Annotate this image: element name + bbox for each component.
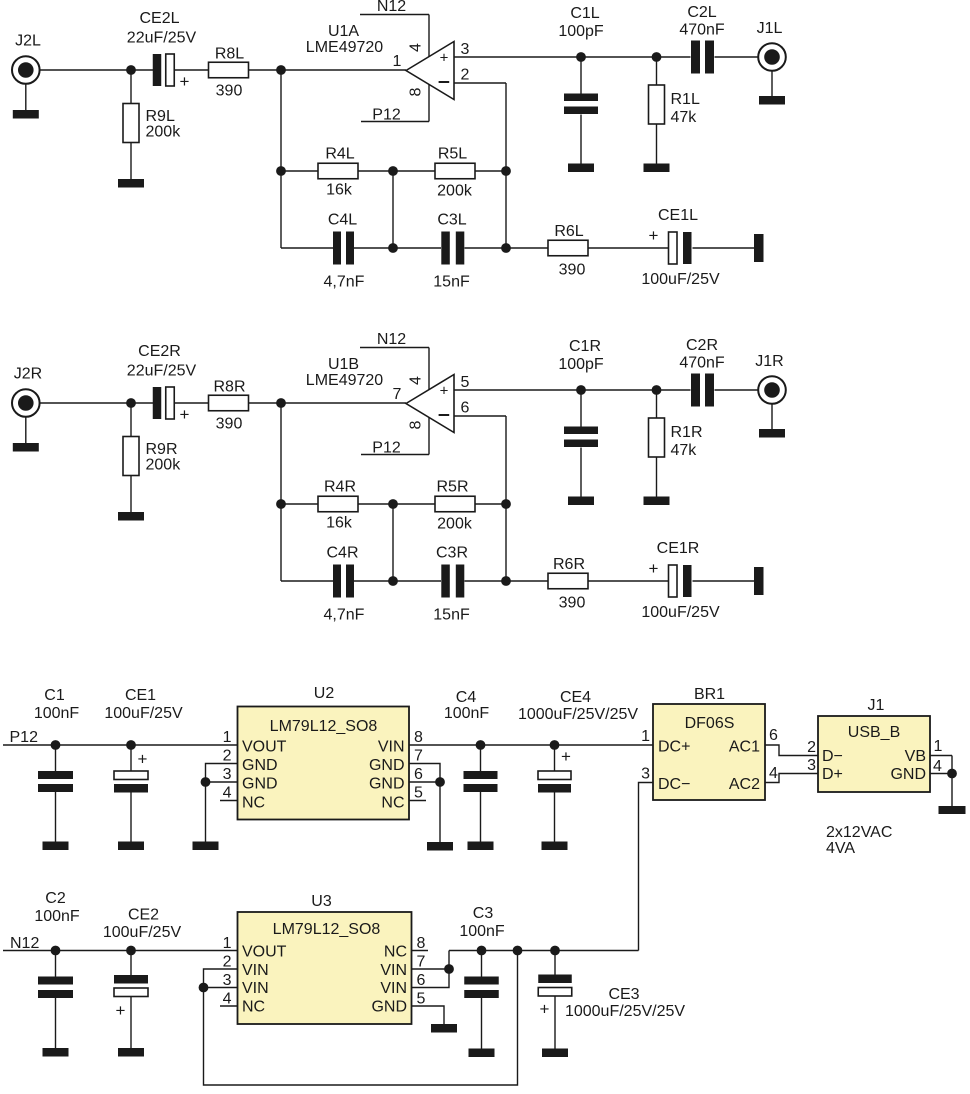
- svg-text:LM79L12_SO8: LM79L12_SO8: [270, 718, 378, 735]
- svg-text:C4L: C4L: [328, 212, 357, 229]
- svg-text:VIN: VIN: [380, 980, 407, 997]
- svg-text:C3R: C3R: [436, 545, 468, 562]
- svg-text:100nF: 100nF: [34, 908, 80, 925]
- svg-text:3: 3: [461, 41, 470, 58]
- svg-text:R5R: R5R: [436, 479, 468, 496]
- svg-text:AC2: AC2: [729, 776, 760, 793]
- svg-text:N12: N12: [377, 331, 406, 348]
- svg-text:D−: D−: [822, 748, 843, 765]
- svg-text:CE1: CE1: [125, 687, 156, 704]
- svg-text:16k: 16k: [326, 515, 353, 532]
- svg-text:+: +: [440, 50, 449, 67]
- svg-text:470nF: 470nF: [679, 22, 725, 39]
- svg-text:4: 4: [223, 785, 232, 802]
- svg-text:LME49720: LME49720: [306, 372, 383, 389]
- svg-text:100nF: 100nF: [34, 705, 80, 722]
- svg-text:CE1L: CE1L: [658, 207, 698, 224]
- svg-text:5: 5: [417, 991, 426, 1008]
- svg-text:100nF: 100nF: [444, 705, 490, 722]
- svg-text:4,7nF: 4,7nF: [324, 274, 365, 291]
- svg-text:CE3: CE3: [608, 986, 639, 1003]
- svg-text:1: 1: [223, 729, 232, 746]
- svg-text:NC: NC: [381, 795, 404, 812]
- svg-text:R4L: R4L: [325, 146, 354, 163]
- svg-text:J1: J1: [868, 697, 885, 714]
- svg-text:J1L: J1L: [757, 20, 783, 37]
- svg-text:5: 5: [461, 374, 470, 391]
- svg-text:R6R: R6R: [553, 556, 585, 573]
- svg-text:USB_B: USB_B: [848, 724, 900, 741]
- svg-text:7: 7: [414, 748, 423, 765]
- svg-text:DC+: DC+: [658, 739, 690, 756]
- svg-text:LM79L12_SO8: LM79L12_SO8: [273, 921, 381, 938]
- svg-text:+: +: [540, 1000, 550, 1019]
- svg-text:200k: 200k: [437, 516, 473, 533]
- svg-text:2: 2: [461, 67, 470, 84]
- svg-text:6: 6: [461, 400, 470, 417]
- svg-text:BR1: BR1: [694, 686, 725, 703]
- svg-text:D+: D+: [822, 766, 843, 783]
- svg-text:DF06S: DF06S: [685, 715, 735, 732]
- svg-text:R9L: R9L: [146, 108, 175, 125]
- svg-text:U1A: U1A: [328, 23, 359, 40]
- svg-text:1000uF/25V/25V: 1000uF/25V/25V: [565, 1003, 685, 1020]
- svg-text:GND: GND: [890, 766, 926, 783]
- svg-text:7: 7: [417, 954, 426, 971]
- svg-text:16k: 16k: [326, 182, 353, 199]
- svg-text:GND: GND: [369, 776, 405, 793]
- svg-text:390: 390: [559, 262, 586, 279]
- svg-text:C3L: C3L: [437, 212, 466, 229]
- svg-text:+: +: [180, 72, 190, 91]
- svg-text:47k: 47k: [671, 109, 698, 126]
- svg-text:200k: 200k: [146, 457, 182, 474]
- svg-text:2x12VAC: 2x12VAC: [826, 824, 892, 841]
- svg-text:22uF/25V: 22uF/25V: [127, 30, 197, 47]
- svg-text:C2: C2: [45, 890, 66, 907]
- svg-text:100uF/25V: 100uF/25V: [103, 924, 182, 941]
- svg-text:U2: U2: [314, 685, 335, 702]
- svg-text:100pF: 100pF: [558, 356, 604, 373]
- svg-text:LME49720: LME49720: [306, 39, 383, 56]
- svg-text:R4R: R4R: [324, 479, 356, 496]
- svg-text:1: 1: [393, 53, 402, 70]
- svg-text:VOUT: VOUT: [242, 944, 287, 961]
- svg-text:8: 8: [408, 87, 425, 96]
- svg-text:100uF/25V: 100uF/25V: [104, 705, 183, 722]
- svg-text:CE4: CE4: [560, 689, 591, 706]
- svg-text:GND: GND: [369, 757, 405, 774]
- svg-text:GND: GND: [242, 776, 278, 793]
- svg-text:R1R: R1R: [671, 424, 703, 441]
- svg-text:6: 6: [417, 972, 426, 989]
- svg-text:NC: NC: [242, 795, 265, 812]
- svg-text:AC1: AC1: [729, 739, 760, 756]
- svg-text:200k: 200k: [437, 183, 473, 200]
- svg-text:P12: P12: [10, 729, 39, 746]
- svg-text:100uF/25V: 100uF/25V: [641, 604, 720, 621]
- svg-text:4: 4: [408, 43, 425, 52]
- svg-text:R8L: R8L: [215, 46, 244, 63]
- svg-text:1: 1: [223, 935, 232, 952]
- svg-text:2: 2: [223, 748, 232, 765]
- svg-text:C3: C3: [473, 905, 494, 922]
- svg-text:R5L: R5L: [438, 146, 467, 163]
- svg-text:N12: N12: [10, 935, 39, 952]
- svg-text:CE2: CE2: [128, 907, 159, 924]
- svg-text:U1B: U1B: [328, 356, 359, 373]
- svg-text:GND: GND: [371, 999, 407, 1016]
- svg-text:C1: C1: [44, 687, 65, 704]
- svg-text:R1L: R1L: [671, 91, 700, 108]
- svg-text:100nF: 100nF: [459, 923, 505, 940]
- svg-text:+: +: [649, 559, 659, 578]
- svg-text:+: +: [138, 750, 148, 769]
- svg-text:390: 390: [216, 416, 243, 433]
- svg-text:VIN: VIN: [378, 739, 405, 756]
- svg-text:+: +: [561, 747, 571, 766]
- svg-text:3: 3: [641, 766, 650, 783]
- svg-text:DC−: DC−: [658, 776, 690, 793]
- svg-text:J2R: J2R: [14, 366, 42, 383]
- svg-text:C1L: C1L: [570, 5, 599, 22]
- svg-text:390: 390: [559, 595, 586, 612]
- svg-text:2: 2: [223, 954, 232, 971]
- svg-text:6: 6: [769, 727, 778, 744]
- svg-text:+: +: [440, 383, 449, 400]
- svg-text:2: 2: [807, 739, 816, 756]
- svg-text:1: 1: [641, 728, 650, 745]
- svg-text:4: 4: [408, 376, 425, 385]
- svg-text:47k: 47k: [671, 442, 698, 459]
- svg-text:7: 7: [393, 386, 402, 403]
- svg-text:1000uF/25V/25V: 1000uF/25V/25V: [518, 706, 638, 723]
- svg-text:8: 8: [417, 935, 426, 952]
- svg-text:J1R: J1R: [755, 353, 783, 370]
- svg-text:4,7nF: 4,7nF: [324, 607, 365, 624]
- svg-text:VB: VB: [905, 748, 926, 765]
- svg-text:+: +: [180, 405, 190, 424]
- svg-text:5: 5: [414, 785, 423, 802]
- svg-text:+: +: [116, 1001, 126, 1020]
- svg-text:100pF: 100pF: [558, 23, 604, 40]
- svg-text:390: 390: [216, 83, 243, 100]
- svg-text:VIN: VIN: [242, 980, 269, 997]
- svg-text:R9R: R9R: [146, 441, 178, 458]
- svg-text:4: 4: [933, 758, 942, 775]
- svg-text:CE1R: CE1R: [657, 540, 700, 557]
- svg-text:15nF: 15nF: [433, 274, 470, 291]
- svg-text:22uF/25V: 22uF/25V: [127, 363, 197, 380]
- svg-text:8: 8: [414, 729, 423, 746]
- svg-text:470nF: 470nF: [679, 355, 725, 372]
- svg-text:VIN: VIN: [242, 962, 269, 979]
- svg-text:3: 3: [807, 757, 816, 774]
- svg-text:U3: U3: [311, 893, 332, 910]
- svg-text:NC: NC: [384, 944, 407, 961]
- svg-text:8: 8: [408, 420, 425, 429]
- svg-text:15nF: 15nF: [433, 607, 470, 624]
- svg-text:R6L: R6L: [554, 223, 583, 240]
- svg-text:C1R: C1R: [569, 338, 601, 355]
- svg-text:4: 4: [223, 991, 232, 1008]
- svg-text:200k: 200k: [146, 124, 182, 141]
- svg-text:VOUT: VOUT: [242, 739, 287, 756]
- svg-text:J2L: J2L: [15, 33, 41, 50]
- svg-text:C2L: C2L: [687, 4, 716, 21]
- svg-text:4: 4: [769, 765, 778, 782]
- svg-text:1: 1: [934, 738, 943, 755]
- svg-text:6: 6: [414, 766, 423, 783]
- svg-text:N12: N12: [377, 0, 406, 15]
- svg-text:C4R: C4R: [326, 545, 358, 562]
- svg-text:+: +: [649, 226, 659, 245]
- svg-text:CE2L: CE2L: [139, 10, 179, 27]
- svg-text:3: 3: [223, 766, 232, 783]
- svg-text:3: 3: [223, 972, 232, 989]
- svg-text:GND: GND: [242, 757, 278, 774]
- svg-text:C4: C4: [456, 689, 477, 706]
- svg-text:R8R: R8R: [213, 379, 245, 396]
- svg-text:VIN: VIN: [380, 962, 407, 979]
- svg-text:100uF/25V: 100uF/25V: [641, 271, 720, 288]
- svg-text:P12: P12: [372, 106, 401, 123]
- svg-text:CE2R: CE2R: [138, 343, 181, 360]
- svg-text:P12: P12: [372, 439, 401, 456]
- svg-text:4VA: 4VA: [826, 840, 855, 857]
- svg-text:NC: NC: [242, 999, 265, 1016]
- svg-text:C2R: C2R: [686, 337, 718, 354]
